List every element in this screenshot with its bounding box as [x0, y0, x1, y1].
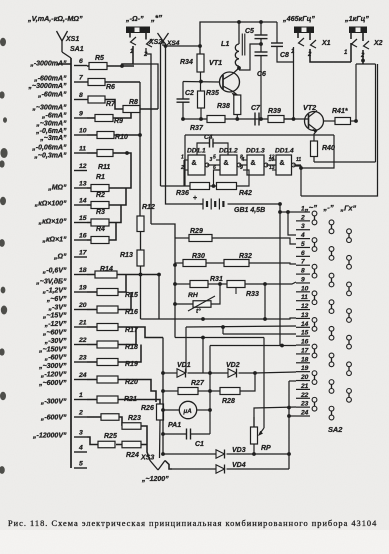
wire meter left bus	[161, 338, 165, 455]
resistor R23	[122, 415, 147, 445]
resistor R20	[87, 376, 156, 402]
wire R38 to bus	[236, 115, 238, 120]
SA2 deck 3 contacts	[347, 229, 352, 402]
wire R36 R42 node to DD1.2	[210, 170, 221, 188]
switch X2	[344, 33, 383, 59]
wire R31 RK loop	[208, 284, 220, 304]
resistor R9	[87, 113, 131, 126]
wire R33 branch down	[245, 282, 267, 319]
wire X2-2 junction	[361, 50, 365, 64]
resistor R14	[87, 266, 161, 319]
wire DD1.2 to DD1.3	[239, 164, 247, 166]
scan smudges left margin	[0, 38, 8, 474]
label RP	[261, 445, 271, 452]
wire generator box	[185, 135, 334, 186]
wire to contact 24	[289, 415, 296, 417]
resistor R35	[198, 90, 219, 108]
resistor R21	[87, 396, 160, 404]
resistor R42	[217, 183, 252, 198]
wire X1-1 down to VT2 base	[292, 47, 296, 121]
wire rail to contact 14	[186, 326, 296, 373]
resistor R15	[87, 275, 138, 300]
transistor VT1	[220, 68, 240, 96]
wire to contact 20	[289, 380, 296, 382]
resistor R38	[217, 95, 241, 115]
logic gate DD1.3	[240, 148, 274, 176]
wire oscillator top rail	[198, 20, 277, 54]
wire R13 down to rail	[139, 266, 143, 319]
resistor R27	[163, 380, 210, 395]
resistor R41	[332, 108, 351, 125]
resistor R8	[123, 99, 158, 113]
connector X2 jack	[349, 27, 367, 34]
resistor R6	[87, 79, 140, 92]
label 1kHz	[344, 14, 369, 23]
switch X1	[291, 33, 331, 58]
capacitor C1	[163, 429, 210, 449]
label XS3	[140, 455, 154, 462]
wire X2 feedback loop	[356, 64, 376, 162]
wire RP wiper feed	[263, 338, 265, 429]
resistor R34	[180, 54, 204, 72]
wire XS2-1 to R5 and down	[122, 46, 158, 109]
wire DD1.1 inputs	[183, 160, 185, 186]
label L1	[221, 39, 229, 48]
wire RP top to contact 23	[254, 406, 296, 427]
label V mA kOhm MOhm	[27, 14, 83, 23]
wire R24 bracket to XS3	[147, 445, 150, 461]
wire R26 to XS3	[159, 420, 162, 458]
resistor R18	[87, 327, 138, 351]
SA2 deck 1 contacts	[312, 211, 317, 411]
wire rail to contact 16	[208, 344, 296, 434]
connector Omega jack	[126, 27, 150, 34]
diode VD2	[210, 362, 257, 378]
logic gate DD1.1	[180, 148, 213, 176]
capacitor C5	[245, 22, 268, 52]
wire L1 to VT1 collector	[238, 66, 240, 68]
resistor R2	[87, 188, 126, 209]
resistor R25	[87, 433, 117, 448]
resistor R10	[87, 132, 142, 142]
switch SA2 positions 1-24	[296, 206, 310, 417]
wire X1-2 to X2-1	[310, 43, 351, 62]
resistor R3	[87, 205, 121, 226]
wire branch to VD1 cathode	[202, 338, 204, 374]
wire C5-C6 tap to collector	[237, 42, 263, 70]
resistor R30	[175, 253, 206, 267]
label PA1	[168, 422, 181, 429]
wire right meter bus	[287, 381, 291, 469]
label XS1	[65, 36, 79, 43]
resistor R1	[87, 153, 131, 192]
label SA1	[70, 46, 84, 53]
resistor R16	[87, 292, 138, 316]
diode VD1	[163, 362, 210, 378]
wire DD1.1 to DD1.2	[207, 164, 220, 166]
wire R30 to R32	[206, 262, 224, 264]
labels SA2 decks	[304, 203, 357, 213]
resistor R7	[87, 96, 123, 109]
thermistor RK	[175, 292, 215, 315]
resistor R11	[87, 150, 129, 172]
wire R42 to DD1.3	[237, 170, 250, 186]
diode VD3	[161, 447, 289, 459]
wire to R29 feed	[151, 224, 175, 238]
capacitor C4	[197, 134, 228, 155]
resistor R33	[218, 281, 296, 299]
wire -3000mA to SA1 common	[57, 63, 71, 65]
resistor R39	[268, 108, 284, 123]
wire R35 to bus	[200, 108, 202, 119]
wire VD2 to contact 19	[255, 372, 296, 373]
resistor R13	[120, 250, 144, 266]
resistor R4	[87, 223, 116, 244]
wire R12 to R13	[140, 232, 142, 251]
probe XS3	[150, 461, 165, 471]
resistor R12	[137, 204, 155, 232]
label 465kHz	[282, 14, 315, 23]
wire base node VT1	[183, 80, 220, 84]
logic gate DD1.4	[269, 148, 301, 176]
capacitor C2	[177, 82, 195, 120]
resistor R31	[175, 276, 223, 288]
wire to contacts 1 and 4	[280, 210, 296, 235]
label SA2	[328, 425, 343, 434]
probe XS1	[57, 31, 72, 58]
resistor R19	[87, 345, 141, 369]
wire top rail of meter block	[175, 336, 264, 340]
label VT2	[303, 103, 316, 112]
wire R6 column down	[139, 82, 141, 216]
wire R34 to R35	[200, 72, 202, 91]
wire XS3 to VD4 row	[165, 461, 172, 470]
diode VD4	[172, 462, 289, 474]
wire to R36 left	[161, 185, 191, 187]
resistor R22	[87, 414, 122, 426]
wire rail to contact 15	[221, 325, 296, 334]
wire DD1.4 output to net	[295, 166, 301, 196]
wire R40 to bottom	[313, 157, 315, 163]
wire DD1.3 to DD1.4	[266, 164, 276, 166]
resistor R28	[210, 373, 255, 405]
resistor R40	[311, 141, 335, 157]
resistor R5	[87, 55, 134, 70]
potentiometer RP	[251, 408, 265, 456]
meter PA1	[163, 401, 210, 418]
transistor VT2	[284, 111, 324, 133]
connector X1 jack	[294, 27, 314, 34]
wire DD1.4 out	[293, 165, 301, 166]
wire X2 output down	[301, 64, 378, 196]
wire oscillator ground bus	[181, 117, 293, 121]
resistor R24	[116, 441, 147, 459]
wire XS2-2 down	[146, 48, 151, 224]
wire inner bottom rail	[314, 161, 376, 163]
label XS4	[166, 40, 180, 47]
resistor R17	[87, 324, 163, 338]
resistor R37	[190, 116, 225, 133]
wire XS4 to R36 feed	[161, 41, 164, 186]
wire SA1 common bus	[70, 58, 72, 468]
resistor R36	[176, 183, 210, 198]
SA2 deck 2 contacts	[329, 220, 334, 420]
inductor L1	[235, 22, 245, 66]
caption	[8, 519, 377, 528]
logic gate DD1.2	[213, 148, 245, 176]
label GB1 4.5V	[234, 207, 265, 214]
label Omega	[125, 14, 144, 23]
label VT1	[209, 58, 222, 67]
capacitor C6	[255, 52, 268, 119]
range labels column	[28, 60, 67, 439]
label ~1200	[141, 476, 169, 483]
switch XS2	[130, 33, 162, 58]
resistor R26	[141, 404, 164, 420]
battery GB1	[193, 195, 280, 210]
wire battery to contact rail bus	[278, 202, 282, 345]
wire XS4 branch to battery and R34	[163, 41, 203, 204]
wire R41 to X2 loop	[351, 119, 358, 123]
resistor R32	[224, 253, 296, 267]
wire VT2 emitter to R40	[314, 131, 317, 142]
wire left node column	[173, 238, 177, 338]
label asterisk	[150, 14, 162, 23]
SA1 position contacts 6-24 1-5	[74, 58, 88, 468]
probe XS4	[158, 33, 169, 46]
wire VT2 to R41	[323, 120, 335, 122]
wire rail to contact 13	[141, 317, 297, 321]
capacitor C8	[271, 22, 294, 62]
capacitor C7	[251, 105, 261, 126]
resistor R29	[175, 228, 296, 244]
